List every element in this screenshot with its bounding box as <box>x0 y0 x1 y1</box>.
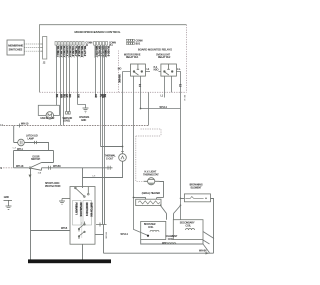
wire color labels under row J5 <box>95 46 110 58</box>
chassis bus bar <box>28 259 111 263</box>
interlock linkage dashed <box>81 223 83 239</box>
wire relay K2 right lead down <box>176 72 180 220</box>
relay K1 <box>131 64 146 76</box>
svg-text:FAN MOTOR: FAN MOTOR <box>41 117 55 120</box>
svg-text:WH-B: WH-B <box>61 228 68 230</box>
wire color labels under row J4 <box>56 46 86 57</box>
connector J2 pin stubs <box>41 44 43 51</box>
svg-text:WH-BK: WH-BK <box>199 251 207 253</box>
svg-text:CONN: CONN <box>136 40 143 42</box>
thermostat right lead <box>160 182 164 198</box>
svg-text:BOARD MOUNTED RELAYS: BOARD MOUNTED RELAYS <box>138 47 172 51</box>
svg-text:PROTECTION: PROTECTION <box>45 186 61 188</box>
return wire down <box>103 225 105 254</box>
svg-text:MEMBRANE: MEMBRANE <box>8 44 23 48</box>
heater element zigzag <box>138 201 160 204</box>
browning right lead <box>211 199 214 254</box>
svg-text:WH-1: WH-1 <box>17 149 24 151</box>
thermostat disc shading <box>148 183 154 185</box>
lamp feed wire <box>14 126 18 143</box>
svg-text:COIL: COIL <box>168 239 174 241</box>
wire horizontal feed to browning circuit <box>141 108 181 110</box>
svg-text:(GRILL) HEATER: (GRILL) HEATER <box>142 192 161 195</box>
svg-text:BK-14: BK-14 <box>183 95 185 102</box>
N rail connector ticks <box>49 166 111 170</box>
fan motor loop <box>38 105 59 115</box>
svg-text:MOTOR DRIVE: MOTOR DRIVE <box>124 54 141 56</box>
svg-text:BK: BK <box>55 94 58 98</box>
connector block CONN BU1 <box>126 39 134 44</box>
svg-text:CHASSIS: CHASSIS <box>79 116 90 119</box>
svg-text:BU1: BU1 <box>136 43 141 45</box>
svg-text:INTERLOCK: INTERLOCK <box>79 203 82 217</box>
svg-text:WH-BK: WH-BK <box>53 166 61 168</box>
heater right link <box>157 197 164 199</box>
wire chassis gnd branch <box>78 105 86 109</box>
sensor connector pins <box>66 112 68 115</box>
filament return pair <box>103 168 105 225</box>
lamp right lead <box>24 143 48 151</box>
wire relay K2 left lead <box>159 71 161 73</box>
svg-text:OR: OR <box>94 94 97 98</box>
booster input junction <box>147 235 149 237</box>
monitor switch feed from N rail <box>82 168 84 188</box>
svg-text:ELEMENT: ELEMENT <box>191 187 203 189</box>
secondary right leads <box>203 232 214 253</box>
wire bundle from CONN J4 down <box>57 45 78 125</box>
svg-text:WH-10: WH-10 <box>21 123 29 125</box>
svg-text:COIL: COIL <box>148 227 154 229</box>
svg-text:BOOSTER: BOOSTER <box>144 224 156 226</box>
browning feed junction <box>180 198 182 200</box>
bottom wire arrow <box>206 252 209 255</box>
interlock monitor box <box>70 187 95 245</box>
door switch S1 <box>29 163 41 171</box>
junction on cutout wire <box>122 146 124 148</box>
svg-text:WH-BK: WH-BK <box>105 232 107 240</box>
svg-text:C-OUT: C-OUT <box>106 158 114 160</box>
svg-text:COIL: COIL <box>186 225 192 227</box>
svg-text:(GAS): (GAS) <box>63 120 70 123</box>
booster coil winding <box>150 230 159 231</box>
lamp parallel branch <box>14 151 54 168</box>
svg-text:LAMP: LAMP <box>28 137 35 140</box>
svg-text:BROWNING: BROWNING <box>190 185 203 187</box>
thermal cutout element <box>121 151 124 159</box>
svg-text:BK: BK <box>103 94 106 98</box>
interlock switch contacts <box>78 222 85 240</box>
connector row CONN J4 <box>55 42 84 46</box>
filament coil winding <box>166 243 176 244</box>
control board outline U1 <box>40 25 187 93</box>
heater left lead <box>134 197 146 199</box>
svg-text:WH: WH <box>162 243 166 245</box>
svg-text:FILAMENT: FILAMENT <box>166 235 178 238</box>
membrane switch box SW1 <box>7 40 24 55</box>
svg-text:THERMOSTAT: THERMOSTAT <box>143 173 159 176</box>
svg-text:SENSOR: SENSOR <box>62 118 72 120</box>
svg-text:WH-18: WH-18 <box>16 166 24 168</box>
junction dot on K1 wire <box>140 108 142 110</box>
N rail <box>3 167 13 169</box>
monitor to return link <box>95 234 104 236</box>
svg-text:WH-14: WH-14 <box>121 234 129 236</box>
latch lamp filament <box>20 141 22 145</box>
svg-text:LATCH LID: LATCH LID <box>26 135 38 138</box>
monitor box chassis ground <box>59 199 70 205</box>
pin stubs row J4 <box>56 45 83 58</box>
monitor wire into box left <box>31 230 71 232</box>
browning element R2 <box>184 194 210 202</box>
transformer bottom link wire <box>141 240 203 245</box>
pin stubs row J5 <box>95 45 107 58</box>
svg-text:OVEN LIGHT: OVEN LIGHT <box>156 54 171 56</box>
svg-text:H3O: H3O <box>154 70 159 72</box>
wire board output junction <box>148 92 150 125</box>
wire cutout to thermostat <box>83 161 123 177</box>
inline connector on lamp lead <box>35 141 37 144</box>
latch lamp DS1 <box>18 139 25 146</box>
browning element wire <box>185 197 203 199</box>
fan motor symbol <box>48 114 52 117</box>
svg-text:GND: GND <box>4 197 9 199</box>
N rail main <box>14 167 113 169</box>
wire relay K1 right to L1 <box>145 71 150 73</box>
svg-text:GND: GND <box>81 120 86 122</box>
browning left lead <box>181 198 185 200</box>
hv thermostat TH1 <box>144 178 160 185</box>
bottom return wire <box>104 252 214 254</box>
wire labels below board edge <box>55 75 181 99</box>
secondary coil winding <box>186 229 195 230</box>
svg-text:GN: GN <box>76 94 79 98</box>
booster coil box T1a <box>141 221 166 239</box>
svg-text:SWITCHES: SWITCHES <box>9 48 23 52</box>
svg-text:GY: GY <box>65 94 68 98</box>
heater bottom stubs to filament <box>161 206 181 220</box>
polarity arrow on riser <box>29 175 32 178</box>
svg-text:PRIMARY I: PRIMARY I <box>74 203 77 216</box>
dashed alternate wire <box>136 129 161 181</box>
svg-text:SHORT-CIRC: SHORT-CIRC <box>45 183 60 185</box>
secondary coil box T1b <box>173 220 203 240</box>
grill heater R1 <box>136 199 161 205</box>
svg-text:THERMAL: THERMAL <box>105 155 117 158</box>
svg-text:MICROPROCESSOR CONTROL: MICROPROCESSOR CONTROL <box>75 30 121 34</box>
sensor branch wire <box>101 146 123 148</box>
svg-text:WH-14: WH-14 <box>160 107 168 109</box>
membrane switch leads <box>24 44 42 51</box>
browning element dot <box>205 198 207 200</box>
chassis ground symbol <box>83 108 89 113</box>
wire relay K1 coil NO lead <box>123 72 131 154</box>
svg-text:MONITOR S: MONITOR S <box>85 203 88 217</box>
L1 rail connector tick <box>17 124 22 128</box>
inline connector ticks <box>96 223 107 227</box>
wire relay K1 bottom right down to L1 rail <box>140 76 142 109</box>
heater terminals <box>146 198 157 200</box>
keyboard connector J2 <box>43 37 47 60</box>
svg-text:WH: WH <box>60 94 63 98</box>
heater feed junction <box>133 197 135 199</box>
svg-text:SECONDARY: SECONDARY <box>180 222 195 225</box>
svg-text:NO: NO <box>118 69 122 71</box>
relay K2 <box>161 64 177 76</box>
connector row CONN J5 <box>94 42 108 46</box>
svg-text:DOOR: DOOR <box>33 156 40 158</box>
svg-text:RELAY RL1: RELAY RL1 <box>126 56 139 59</box>
svg-text:H.V. LIGHT: H.V. LIGHT <box>145 172 157 174</box>
wire relay K1 bottom left down to transformer <box>134 76 149 235</box>
filament junction dots <box>160 204 162 206</box>
L1 rail <box>4 125 149 127</box>
wires from CONN J5 down <box>96 45 105 177</box>
svg-text:SWITCH WH: SWITCH WH <box>90 203 93 217</box>
relay area dashed box <box>118 51 120 93</box>
interlock switch vertical labels <box>73 201 82 226</box>
earth ground symbol <box>4 200 13 209</box>
ground riser from door switch <box>30 168 32 260</box>
svg-text:RD: RD <box>68 94 71 98</box>
wire relay K2 bottom leads <box>165 76 172 97</box>
svg-text:CONN: CONN <box>109 42 116 44</box>
svg-text:RELAY RL2: RELAY RL2 <box>158 56 171 59</box>
svg-text:CONN: CONN <box>85 42 92 44</box>
thermal cutout TCO <box>119 154 127 162</box>
fan motor B1 <box>46 112 53 119</box>
svg-text:WH-BK: WH-BK <box>118 75 121 84</box>
svg-text:SWITCH: SWITCH <box>31 159 41 161</box>
svg-text:L1-: L1- <box>177 69 181 71</box>
monitor box bottom lead <box>82 244 84 260</box>
monitor switch blade <box>75 187 90 198</box>
